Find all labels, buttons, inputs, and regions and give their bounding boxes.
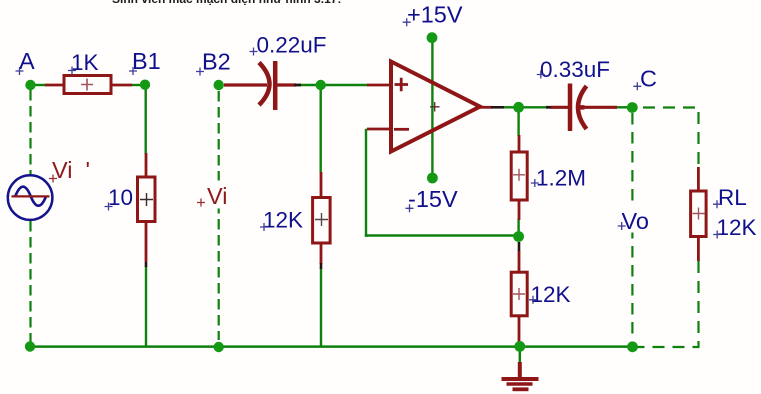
svg-text:Vi ': Vi ' <box>52 157 90 183</box>
label 12K RL <box>713 215 756 240</box>
label Vo <box>617 206 653 235</box>
label 0.22uF <box>250 33 327 58</box>
node output <box>513 102 524 113</box>
op-amp U1 <box>367 62 504 152</box>
label 12K input <box>260 208 303 233</box>
label -15V <box>406 186 458 212</box>
node rail Vo <box>627 341 638 352</box>
ground <box>502 362 539 389</box>
svg-text:A: A <box>19 48 35 74</box>
label 12K feedback <box>529 282 571 307</box>
svg-text:+15V: +15V <box>407 2 463 28</box>
label +15V <box>403 2 463 28</box>
resistor 1K <box>45 76 132 94</box>
svg-text:0.22uF: 0.22uF <box>257 33 327 58</box>
wire out node down to 1.2M <box>517 107 519 136</box>
node C <box>627 102 638 113</box>
svg-text:Sinh viên mắc mạch điện như hì: Sinh viên mắc mạch điện như hình 3.17: <box>112 0 341 6</box>
node gnd rail <box>514 341 525 352</box>
svg-text:0.33uF: 0.33uF <box>540 57 610 82</box>
node A <box>25 80 35 90</box>
node -15V <box>427 173 438 184</box>
svg-text:12K: 12K <box>531 282 571 307</box>
dashed wire node C to RL top <box>643 108 699 169</box>
node rail B2 <box>214 342 224 352</box>
resistor 1.2M <box>511 135 527 220</box>
resistor RL <box>691 167 707 261</box>
svg-text:C: C <box>640 66 657 92</box>
label A <box>16 48 36 75</box>
svg-text:1K: 1K <box>71 50 99 75</box>
feedback wire vertical <box>365 129 367 237</box>
dashed wire A to source <box>29 90 31 174</box>
feedback wire horizontal <box>365 234 514 236</box>
wire cap 0.22uF to junction <box>299 84 322 86</box>
node junction cap-12K <box>316 80 326 90</box>
label 0.33uF <box>537 57 610 82</box>
wire output to out node <box>503 106 514 108</box>
dashed wire source to rail <box>29 221 31 344</box>
svg-text:12K: 12K <box>717 215 757 240</box>
resistor 12K feedback <box>511 242 527 343</box>
resistor 12K input <box>313 172 331 269</box>
wire +15V to -15V through op-amp <box>431 42 433 174</box>
wire gnd node stub <box>519 347 521 364</box>
wire cap 0.33uF to node C <box>616 106 632 108</box>
wire junction down to 12K input <box>320 85 322 173</box>
label 1.2M <box>531 166 586 191</box>
node B2 <box>214 80 224 90</box>
svg-text:Vi: Vi <box>207 183 227 209</box>
capacitor 0.33uF <box>546 84 617 132</box>
caption text (clipped at top) <box>112 0 341 6</box>
label B2 <box>196 49 231 76</box>
node B1 <box>140 80 150 90</box>
label 10 <box>105 185 134 211</box>
wire 1K to B1 <box>131 84 145 86</box>
wire 1.2M to mid node <box>517 219 519 237</box>
label C <box>633 66 657 92</box>
label B1 <box>129 48 161 75</box>
node feedback mid <box>513 231 524 242</box>
node rail left <box>25 341 35 351</box>
wire junction to op-amp plus <box>322 84 368 86</box>
svg-text:Vo: Vo <box>622 208 649 234</box>
svg-text:B2: B2 <box>202 49 231 75</box>
resistor 10 <box>138 153 156 267</box>
svg-text:B1: B1 <box>132 48 161 74</box>
label Vi' <box>49 157 90 183</box>
label 1K <box>68 50 99 75</box>
svg-text:RL: RL <box>718 185 747 210</box>
bottom rail wire <box>29 345 633 348</box>
node +15V <box>427 32 438 43</box>
wire out node to cap 0.33uF <box>523 106 548 108</box>
wire 12K input bottom to rail <box>320 268 322 347</box>
capacitor 0.22uF <box>224 61 301 110</box>
svg-text:12K: 12K <box>263 208 303 233</box>
wire A to 1K <box>30 84 46 86</box>
dashed wire RL bottom to rail <box>637 261 699 347</box>
wire B1 down to resistor 10 <box>144 85 146 154</box>
label Vi <box>197 181 233 210</box>
source Vi' <box>8 175 53 220</box>
dashed wire node C down (Vo) <box>631 113 633 341</box>
svg-text:1.2M: 1.2M <box>536 166 586 191</box>
dashed wire B2 to rail (Vi) <box>218 91 220 340</box>
svg-text:-15V: -15V <box>408 186 458 212</box>
label RL <box>713 185 747 210</box>
wire resistor 10 bottom to rail <box>145 266 147 347</box>
